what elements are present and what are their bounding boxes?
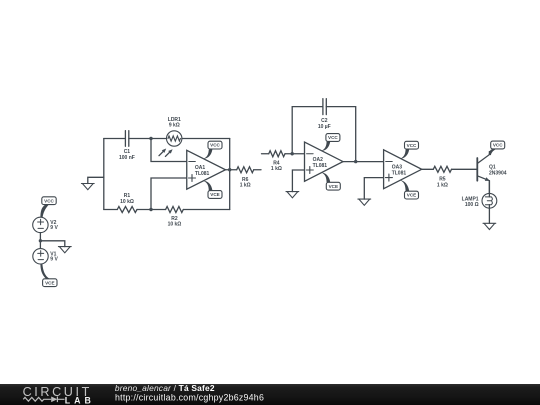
- op-amp OA2: [305, 142, 344, 181]
- junction OA2 output node: [354, 160, 357, 163]
- LDR1 light arrow 1: [159, 149, 166, 156]
- svg-text:9 V: 9 V: [50, 257, 58, 263]
- wire: R4 open stub: [262, 153, 269, 155]
- ground G3: [358, 199, 371, 205]
- svg-text:9 kΩ: 9 kΩ: [169, 123, 180, 129]
- wire: OA2 non-inverting input to ground G2: [292, 170, 304, 192]
- svg-text:TL081: TL081: [392, 171, 407, 177]
- wire: OA2 output to OA3 inverting input: [343, 161, 384, 163]
- OA3 plus pin symbol: [385, 174, 392, 181]
- svg-text:1 kΩ: 1 kΩ: [437, 182, 448, 188]
- lamp LAMP1: [482, 181, 497, 209]
- VCC flag of OA2: [321, 134, 340, 151]
- junction node B (R1/R2/OA1 plus): [149, 208, 152, 211]
- svg-text:VCC: VCC: [44, 198, 54, 203]
- svg-text:VCE: VCE: [45, 280, 54, 285]
- ground G5: [58, 247, 71, 253]
- ground G1: [81, 184, 94, 190]
- wire: node A to OA1 inverting input: [151, 139, 187, 162]
- resistor R1: [117, 207, 137, 213]
- VCC flag of V2: [40, 197, 56, 218]
- wire: feedback vertical of OA1: [229, 139, 231, 210]
- svg-text:TL081: TL081: [195, 171, 210, 177]
- photoresistor LDR1: [167, 131, 182, 146]
- wire: R4 to OA2 inverting input: [285, 153, 305, 155]
- VCE flag of OA3: [400, 180, 419, 199]
- capacitor C2: [323, 99, 326, 115]
- resistor R6: [237, 167, 254, 173]
- svg-text:VCC: VCC: [328, 135, 338, 140]
- wire: mid supply to ground G5: [40, 241, 64, 247]
- wire: bottom wire left segment: [104, 209, 118, 211]
- junction node A (C1/LDR1/OA1 minus): [149, 137, 152, 140]
- svg-text:VCC: VCC: [493, 143, 503, 148]
- OA1 minus pin symbol: [189, 161, 196, 163]
- wire: C2 right to OA2 output: [326, 107, 355, 162]
- wire: OA1 non-inverting input to node B: [151, 178, 187, 210]
- wire: top net left segment to C1: [104, 138, 126, 140]
- svg-text:2N3904: 2N3904: [489, 170, 507, 176]
- ground G2: [286, 192, 299, 198]
- junction supply midpoint node: [39, 239, 42, 242]
- wire: R2 to feedback corner: [183, 209, 229, 211]
- op-amp OA1: [187, 150, 226, 189]
- resistor R2: [166, 207, 184, 213]
- wire: R6 open stub: [254, 169, 261, 171]
- op-amp OA3: [384, 150, 422, 189]
- svg-text:VCE: VCE: [329, 184, 338, 189]
- wire: LAMP1 to ground G4: [488, 205, 490, 224]
- svg-text:10 µF: 10 µF: [318, 124, 331, 130]
- transistor Q1 collector lead: [477, 152, 489, 164]
- wire: left vertical (C1/R1 ground rail): [103, 139, 105, 210]
- svg-text:100 nF: 100 nF: [119, 155, 135, 161]
- VCE flag of OA2: [321, 172, 340, 190]
- wire: OA1 output to R6: [226, 169, 237, 171]
- wire: R1 to node B: [137, 209, 166, 211]
- VCC flag of OA3: [400, 141, 419, 159]
- svg-text:LAB: LAB: [65, 395, 95, 405]
- svg-text:1 kΩ: 1 kΩ: [240, 183, 251, 189]
- wire: V2 to V1: [39, 233, 41, 249]
- LDR1 light arrow 2: [165, 149, 172, 156]
- svg-text:10 kΩ: 10 kΩ: [120, 199, 134, 205]
- resistor R4: [269, 151, 285, 157]
- VCC flag of OA1: [203, 141, 222, 159]
- footer logo resistor squiggle: [23, 397, 51, 401]
- resistor R5: [433, 166, 451, 172]
- svg-text:VCE: VCE: [210, 192, 219, 197]
- footer bar: [0, 384, 540, 405]
- junction OA1 output node: [228, 168, 231, 171]
- voltage source V1: [33, 249, 48, 264]
- footer logo diode: [51, 397, 64, 403]
- transistor Q1 base bar: [476, 158, 478, 181]
- wire: C2 feedback left/top: [292, 107, 323, 154]
- ground G4: [483, 223, 496, 229]
- wire: stub to ground G1: [88, 177, 104, 183]
- OA1 plus pin symbol: [189, 175, 196, 182]
- VCC flag of Q1: [489, 141, 505, 155]
- wire: C1 to LDR1: [129, 138, 167, 140]
- VCE flag of OA1: [203, 181, 222, 199]
- OA2 minus pin symbol: [307, 153, 314, 155]
- svg-text:VCC: VCC: [210, 143, 220, 148]
- svg-text:100 Ω: 100 Ω: [465, 202, 479, 208]
- svg-text:TL081: TL081: [313, 163, 328, 169]
- svg-text:1 kΩ: 1 kΩ: [271, 166, 282, 172]
- voltage source V2: [33, 217, 48, 232]
- VCE flag of V1: [40, 264, 57, 287]
- capacitor C1: [125, 131, 128, 147]
- transistor Q1 emitter lead: [477, 176, 490, 197]
- wire: LDR1 to feedback corner: [182, 138, 230, 140]
- svg-text:9 V: 9 V: [50, 225, 58, 231]
- junction OA2 inverting node: [291, 152, 294, 155]
- wire: OA3 output to R5: [422, 168, 434, 170]
- wire: OA3 non-inverting input to ground G3: [364, 178, 383, 200]
- svg-text:http://circuitlab.com/cghpy2b6: http://circuitlab.com/cghpy2b6z94h6: [115, 392, 264, 402]
- svg-text:10 kΩ: 10 kΩ: [168, 222, 182, 228]
- OA2 plus pin symbol: [306, 167, 313, 174]
- svg-text:VCE: VCE: [407, 193, 416, 198]
- wire: R5 to Q1 base: [452, 168, 478, 170]
- OA3 minus pin symbol: [386, 161, 393, 163]
- svg-text:VCC: VCC: [407, 143, 417, 148]
